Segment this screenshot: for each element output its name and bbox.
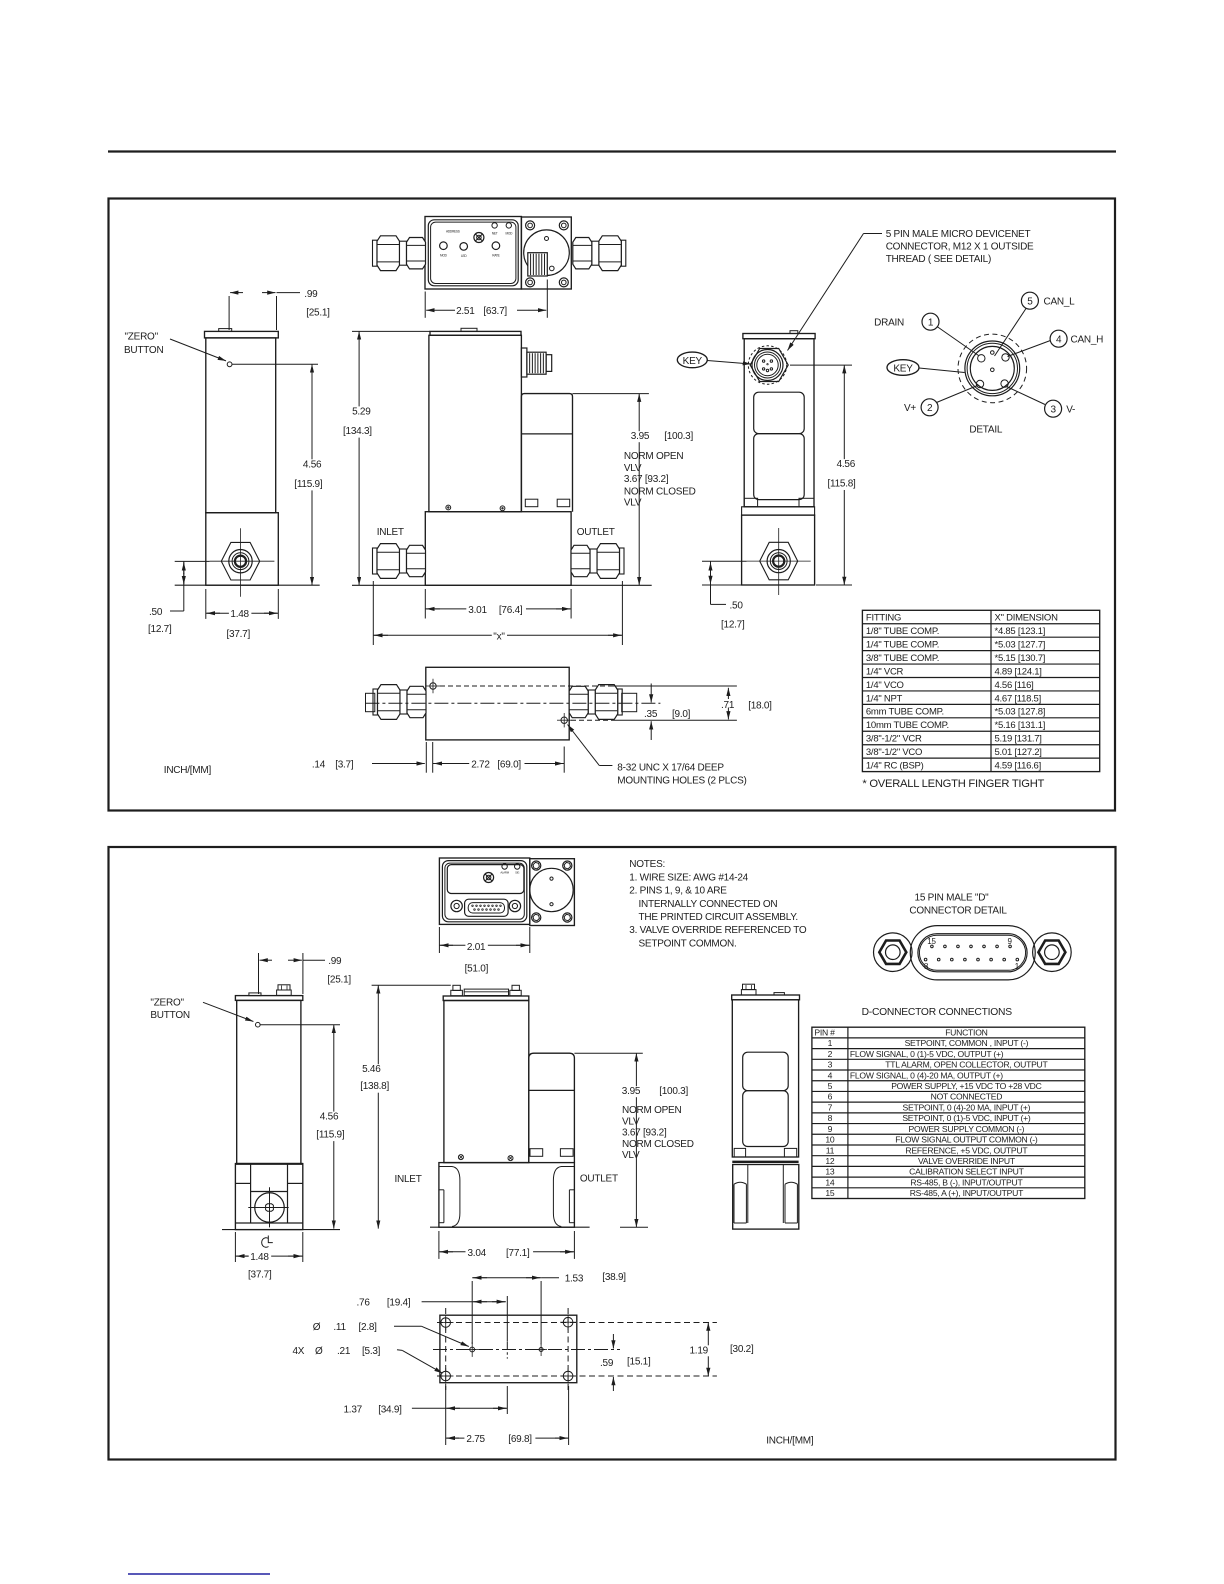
svg-text:POWER SUPPLY COMMON (-): POWER SUPPLY COMMON (-): [909, 1124, 1025, 1134]
svg-text:1.48: 1.48: [250, 1252, 269, 1263]
svg-text:CAN_H: CAN_H: [1071, 334, 1104, 345]
svg-text:X" DIMENSION: X" DIMENSION: [995, 613, 1059, 624]
svg-text:4.56: 4.56: [837, 459, 856, 470]
svg-text:3/8" TUBE COMP.: 3/8" TUBE COMP.: [866, 653, 939, 664]
svg-text:[115.8]: [115.8]: [828, 479, 857, 490]
svg-text:9: 9: [828, 1124, 833, 1134]
svg-text:.14: .14: [312, 760, 326, 771]
svg-text:SETPOINT, 0 (4)-20 MA, INPUT (: SETPOINT, 0 (4)-20 MA, INPUT (+): [903, 1102, 1031, 1112]
svg-text:[18.0]: [18.0]: [748, 701, 772, 712]
svg-text:SETPOINT, COMMON , INPUT (-): SETPOINT, COMMON , INPUT (-): [905, 1038, 1029, 1048]
svg-text:[2.8]: [2.8]: [359, 1322, 378, 1333]
svg-text:5.29: 5.29: [352, 406, 371, 417]
svg-text:11: 11: [826, 1145, 835, 1155]
svg-text:1: 1: [828, 1038, 833, 1048]
svg-text:INCH/[MM]: INCH/[MM]: [164, 765, 212, 776]
svg-text:[12.7]: [12.7]: [148, 624, 172, 635]
svg-text:ALARM: ALARM: [500, 871, 509, 875]
svg-text:[100.3]: [100.3]: [659, 1086, 688, 1097]
svg-text:MOD: MOD: [505, 232, 513, 236]
svg-text:5: 5: [828, 1081, 833, 1091]
svg-text:1/4" VCO: 1/4" VCO: [866, 680, 904, 691]
svg-text:*4.85 [123.1]: *4.85 [123.1]: [995, 626, 1046, 637]
svg-text:*5.16 [131.1]: *5.16 [131.1]: [995, 720, 1046, 731]
svg-text:2.72: 2.72: [471, 760, 490, 771]
svg-text:1/8" TUBE COMP.: 1/8" TUBE COMP.: [866, 626, 939, 637]
svg-text:CAN_L: CAN_L: [1044, 296, 1076, 307]
svg-text:.35: .35: [644, 709, 658, 720]
svg-text:INTERNALLY CONNECTED ON: INTERNALLY CONNECTED ON: [639, 899, 778, 910]
svg-text:[76.4]: [76.4]: [499, 605, 523, 616]
svg-text:[5.3]: [5.3]: [362, 1346, 381, 1357]
svg-text:NOT CONNECTED: NOT CONNECTED: [931, 1092, 1003, 1102]
svg-text:THE PRINTED CIRCUIT ASSEMBLY.: THE PRINTED CIRCUIT ASSEMBLY.: [639, 912, 798, 923]
svg-text:[37.7]: [37.7]: [248, 1270, 272, 1281]
svg-text:FUNCTION: FUNCTION: [945, 1028, 987, 1038]
svg-text:VLV: VLV: [622, 1150, 640, 1161]
svg-text:*5.03 [127.8]: *5.03 [127.8]: [995, 707, 1046, 718]
svg-text:CALIBRATION SELECT INPUT: CALIBRATION SELECT INPUT: [909, 1167, 1024, 1177]
svg-text:13: 13: [825, 1167, 835, 1177]
svg-text:[38.9]: [38.9]: [602, 1272, 626, 1283]
svg-text:3/8"-1/2" VCO: 3/8"-1/2" VCO: [866, 747, 922, 758]
svg-text:[69.0]: [69.0]: [497, 760, 521, 771]
svg-text:4.59 [116.6]: 4.59 [116.6]: [995, 760, 1041, 771]
svg-text:.71: .71: [721, 700, 735, 711]
svg-text:8: 8: [828, 1113, 833, 1123]
svg-text:VLV: VLV: [624, 498, 642, 509]
svg-text:SIG: SIG: [515, 871, 519, 875]
svg-text:8-32 UNC X 17/64 DEEP: 8-32 UNC X 17/64 DEEP: [617, 763, 724, 774]
svg-text:PIN #: PIN #: [814, 1028, 835, 1038]
svg-text:4.67 [118.5]: 4.67 [118.5]: [995, 693, 1041, 704]
svg-text:[115.9]: [115.9]: [316, 1130, 345, 1141]
svg-text:KEY: KEY: [683, 356, 703, 367]
svg-text:NORM CLOSED: NORM CLOSED: [624, 487, 696, 498]
svg-text:3: 3: [828, 1060, 833, 1070]
svg-text:1/4" VCR: 1/4" VCR: [866, 666, 904, 677]
svg-text:3.95: 3.95: [631, 431, 650, 442]
svg-text:[3.7]: [3.7]: [335, 760, 354, 771]
svg-text:VLV: VLV: [622, 1117, 640, 1128]
svg-text:.99: .99: [328, 956, 342, 967]
svg-text:1. WIRE SIZE: AWG #14-24: 1. WIRE SIZE: AWG #14-24: [629, 872, 748, 883]
svg-text:NORM OPEN: NORM OPEN: [622, 1105, 681, 1116]
svg-text:RATE: RATE: [492, 254, 499, 258]
svg-text:[69.8]: [69.8]: [508, 1434, 532, 1445]
svg-text:.50: .50: [149, 607, 163, 618]
svg-text:BUTTON: BUTTON: [150, 1010, 189, 1021]
svg-text:DRAIN: DRAIN: [874, 317, 904, 328]
svg-text:4: 4: [1056, 334, 1062, 345]
svg-text:.50: .50: [730, 601, 744, 612]
svg-text:FLOW SIGNAL, 0 (4)-20 MA, OUTP: FLOW SIGNAL, 0 (4)-20 MA, OUTPUT (+): [850, 1070, 1003, 1080]
svg-text:3.67 [93.2]: 3.67 [93.2]: [622, 1128, 667, 1139]
svg-text:1.53: 1.53: [565, 1274, 584, 1285]
svg-text:OUTLET: OUTLET: [577, 527, 615, 538]
svg-text:2.51: 2.51: [456, 306, 475, 317]
svg-text:10mm TUBE COMP.: 10mm TUBE COMP.: [866, 720, 949, 731]
svg-text:14: 14: [825, 1177, 835, 1187]
svg-text:.11: .11: [333, 1322, 346, 1333]
svg-text:RS-485, B (-), INPUT/OUTPUT: RS-485, B (-), INPUT/OUTPUT: [910, 1177, 1023, 1187]
svg-text:NOTES:: NOTES:: [629, 859, 665, 870]
svg-text:RS-485, A (+), INPUT/OUTPUT: RS-485, A (+), INPUT/OUTPUT: [910, 1188, 1024, 1198]
svg-text:15: 15: [825, 1188, 835, 1198]
svg-text:3. VALVE OVERRIDE REFERENCED T: 3. VALVE OVERRIDE REFERENCED TO: [629, 925, 807, 936]
svg-text:1.48: 1.48: [230, 609, 249, 620]
svg-text:POWER SUPPLY, +15 VDC TO +28 V: POWER SUPPLY, +15 VDC TO +28 VDC: [891, 1081, 1041, 1091]
svg-text:2.01: 2.01: [467, 942, 486, 953]
svg-text:1/4" RC (BSP): 1/4" RC (BSP): [866, 760, 924, 771]
svg-text:5.46: 5.46: [362, 1064, 381, 1075]
svg-text:"x": "x": [493, 631, 505, 642]
svg-text:[12.7]: [12.7]: [721, 620, 745, 631]
svg-text:15 PIN MALE "D": 15 PIN MALE "D": [915, 893, 990, 904]
svg-text:SETPOINT, 0 (1)-5 VDC, INPUT (: SETPOINT, 0 (1)-5 VDC, INPUT (+): [902, 1113, 1031, 1123]
svg-text:REFERENCE, +5 VDC, OUTPUT: REFERENCE, +5 VDC, OUTPUT: [905, 1145, 1028, 1155]
svg-text:FLOW SIGNAL OUTPUT COMMON (-): FLOW SIGNAL OUTPUT COMMON (-): [895, 1135, 1038, 1145]
svg-text:3.01: 3.01: [468, 605, 487, 616]
svg-text:6mm TUBE COMP.: 6mm TUBE COMP.: [866, 707, 944, 718]
svg-text:OUTLET: OUTLET: [580, 1174, 618, 1185]
svg-text:[134.3]: [134.3]: [343, 426, 372, 437]
svg-text:1/4" TUBE COMP.: 1/4" TUBE COMP.: [866, 639, 939, 650]
svg-text:[25.1]: [25.1]: [327, 974, 351, 985]
svg-text:4.56: 4.56: [303, 459, 322, 470]
svg-text:.21: .21: [337, 1346, 351, 1357]
svg-text:KEY: KEY: [893, 364, 913, 375]
svg-text:12: 12: [825, 1156, 835, 1166]
svg-text:[30.2]: [30.2]: [730, 1344, 754, 1355]
svg-text:MOD: MOD: [440, 254, 448, 258]
svg-text:4.56: 4.56: [320, 1112, 339, 1123]
svg-text:[34.9]: [34.9]: [378, 1404, 402, 1415]
svg-text:5.01 [127.2]: 5.01 [127.2]: [995, 747, 1042, 758]
svg-text:3/8"-1/2" VCR: 3/8"-1/2" VCR: [866, 734, 922, 745]
svg-text:5: 5: [1027, 296, 1033, 307]
svg-text:CONNECTOR, M12 X 1 OUTSIDE: CONNECTOR, M12 X 1 OUTSIDE: [886, 242, 1034, 253]
svg-text:[51.0]: [51.0]: [465, 963, 489, 974]
svg-text:[63.7]: [63.7]: [483, 306, 507, 317]
svg-text:"ZERO": "ZERO": [125, 331, 159, 342]
svg-text:2: 2: [828, 1049, 833, 1059]
svg-text:1/4" NPT: 1/4" NPT: [866, 693, 903, 704]
svg-text:4: 4: [828, 1070, 833, 1080]
svg-text:CONNECTOR DETAIL: CONNECTOR DETAIL: [909, 905, 1007, 916]
svg-text:VALVE OVERRIDE INPUT: VALVE OVERRIDE INPUT: [918, 1156, 1016, 1166]
svg-text:10: 10: [825, 1135, 835, 1145]
svg-text:2. PINS 1, 9, & 10 ARE: 2. PINS 1, 9, & 10 ARE: [629, 886, 727, 897]
svg-text:3.04: 3.04: [468, 1248, 487, 1259]
svg-text:2.75: 2.75: [466, 1434, 485, 1445]
svg-text:5.19 [131.7]: 5.19 [131.7]: [995, 734, 1042, 745]
svg-text:4.56 [116]: 4.56 [116]: [995, 680, 1034, 691]
svg-text:[15.1]: [15.1]: [627, 1357, 651, 1368]
svg-text:2: 2: [927, 403, 933, 414]
svg-text:[37.7]: [37.7]: [227, 629, 251, 640]
svg-text:1.19: 1.19: [690, 1345, 709, 1356]
svg-text:.76: .76: [357, 1298, 371, 1309]
svg-text:1: 1: [928, 317, 934, 328]
svg-text:ADDRESS: ADDRESS: [446, 230, 460, 234]
svg-text:Ø: Ø: [315, 1346, 323, 1357]
svg-text:INLET: INLET: [377, 527, 404, 538]
svg-text:LED: LED: [461, 254, 467, 258]
svg-text:* OVERALL LENGTH FINGER TIGHT: * OVERALL LENGTH FINGER TIGHT: [862, 778, 1044, 790]
svg-text:NORM CLOSED: NORM CLOSED: [622, 1139, 694, 1150]
svg-text:TTL ALARM, OPEN COLLECTOR, OUT: TTL ALARM, OPEN COLLECTOR, OUTPUT: [885, 1060, 1048, 1070]
svg-text:THREAD ( SEE DETAIL): THREAD ( SEE DETAIL): [886, 254, 991, 265]
svg-text:FITTING: FITTING: [866, 613, 901, 624]
svg-text:4.89 [124.1]: 4.89 [124.1]: [995, 666, 1042, 677]
svg-text:[9.0]: [9.0]: [672, 709, 691, 720]
svg-text:7: 7: [828, 1102, 833, 1112]
svg-text:.59: .59: [600, 1358, 614, 1369]
svg-text:6: 6: [828, 1092, 833, 1102]
svg-text:D-CONNECTOR CONNECTIONS: D-CONNECTOR CONNECTIONS: [862, 1007, 1013, 1018]
svg-text:MOUNTING HOLES (2 PLCS): MOUNTING HOLES (2 PLCS): [617, 776, 746, 787]
svg-text:.99: .99: [304, 289, 318, 300]
svg-text:[19.4]: [19.4]: [387, 1298, 411, 1309]
svg-text:[115.9]: [115.9]: [294, 479, 323, 490]
svg-text:V+: V+: [904, 403, 916, 414]
svg-text:NORM OPEN: NORM OPEN: [624, 451, 683, 462]
svg-text:NET: NET: [492, 232, 498, 236]
svg-text:*5.03 [127.7]: *5.03 [127.7]: [995, 639, 1046, 650]
svg-text:V-: V-: [1066, 404, 1075, 415]
svg-text:[100.3]: [100.3]: [664, 431, 693, 442]
svg-text:DETAIL: DETAIL: [969, 425, 1002, 436]
svg-text:[138.8]: [138.8]: [360, 1081, 389, 1092]
svg-text:"ZERO": "ZERO": [150, 998, 184, 1009]
svg-text:INCH/[MM]: INCH/[MM]: [766, 1436, 814, 1447]
svg-text:VLV: VLV: [624, 463, 642, 474]
svg-text:*5.15 [130.7]: *5.15 [130.7]: [995, 653, 1046, 664]
svg-text:BUTTON: BUTTON: [124, 345, 163, 356]
svg-text:3.95: 3.95: [622, 1086, 641, 1097]
svg-text:SETPOINT COMMON.: SETPOINT COMMON.: [639, 938, 737, 949]
svg-text:15: 15: [927, 937, 936, 946]
svg-text:[25.1]: [25.1]: [306, 308, 330, 319]
svg-text:4X: 4X: [293, 1346, 305, 1357]
svg-text:9: 9: [1007, 937, 1012, 946]
svg-text:[77.1]: [77.1]: [506, 1248, 530, 1259]
svg-text:INLET: INLET: [395, 1174, 422, 1185]
svg-text:3.67 [93.2]: 3.67 [93.2]: [624, 474, 669, 485]
svg-text:3: 3: [1050, 404, 1056, 415]
svg-text:1.37: 1.37: [344, 1404, 363, 1415]
svg-text:5 PIN MALE MICRO DEVICENET: 5 PIN MALE MICRO DEVICENET: [886, 229, 1031, 240]
svg-text:Ø: Ø: [313, 1322, 321, 1333]
svg-text:FLOW SIGNAL, 0 (1)-5 VDC, OUTP: FLOW SIGNAL, 0 (1)-5 VDC, OUTPUT (+): [850, 1049, 1004, 1059]
